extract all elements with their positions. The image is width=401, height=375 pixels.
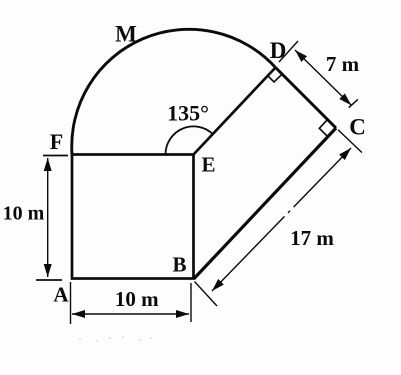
- wire D to C: [276, 68, 337, 129]
- extension line below A: [70, 282, 72, 324]
- right angle marker at D: [267, 75, 282, 82]
- square ABEF: [72, 155, 194, 279]
- extension tick at F level: [43, 155, 68, 157]
- svg-text:B: B: [172, 253, 186, 277]
- extension line below B: [190, 283, 192, 322]
- extension tick below A: [36, 279, 62, 281]
- dimension line 17 m dash-dot: [212, 148, 351, 291]
- wire C to B: [194, 128, 336, 279]
- extension line past C for 17 m: [338, 130, 362, 153]
- svg-text:D: D: [270, 38, 287, 63]
- svg-text:10 m: 10 m: [3, 203, 45, 225]
- right angle marker at C: [319, 120, 328, 137]
- dimension line 10 m vertical: [47, 158, 49, 277]
- dimension line 7 m: [295, 50, 351, 105]
- dimension line 10 m horizontal: [72, 313, 189, 315]
- arc M from F to D: [72, 29, 276, 154]
- svg-text:F: F: [50, 129, 63, 154]
- svg-text:10 m: 10 m: [115, 287, 159, 311]
- scan speckles: [79, 336, 152, 342]
- svg-text:C: C: [349, 115, 366, 140]
- svg-text:M: M: [115, 22, 137, 47]
- svg-text:17 m: 17 m: [290, 226, 334, 250]
- svg-text:A: A: [53, 283, 69, 307]
- extension line past D: [279, 41, 298, 62]
- extension line below B for 17 m: [195, 282, 218, 307]
- angle arc 135 at E: [165, 126, 213, 154]
- svg-text:135°: 135°: [167, 101, 209, 126]
- svg-text:E: E: [201, 153, 215, 177]
- svg-text:7 m: 7 m: [326, 52, 360, 76]
- extension tick near C for 7 m: [349, 99, 358, 107]
- wire E to D: [194, 68, 276, 155]
